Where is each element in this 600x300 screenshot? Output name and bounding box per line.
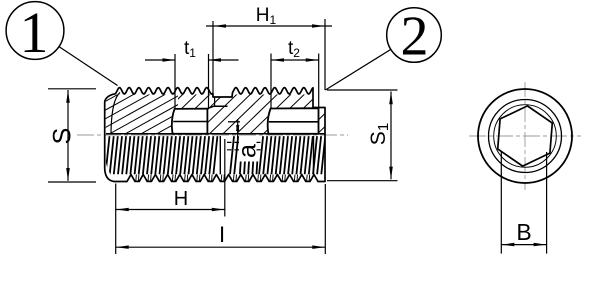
svg-text:a: a <box>234 144 262 158</box>
svg-text:2: 2 <box>401 6 429 68</box>
svg-text:B: B <box>516 219 531 245</box>
svg-text:S: S <box>49 128 77 145</box>
svg-text:H: H <box>174 188 188 210</box>
svg-text:1: 1 <box>20 0 49 65</box>
svg-text:I: I <box>219 222 225 247</box>
